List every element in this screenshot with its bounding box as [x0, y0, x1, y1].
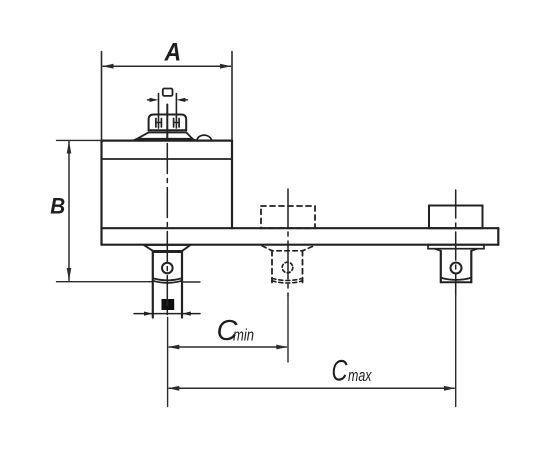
- middle phantom groove arcs (dashed): [272, 278, 303, 283]
- knob base trapezoid: [137, 132, 193, 138]
- right flange slope right: [471, 249, 477, 251]
- C dimensions left extension line: [167, 318, 169, 407]
- right drive side right: [470, 251, 472, 282]
- stub extension line left: [158, 94, 160, 129]
- right drive pin hole circle: [451, 263, 462, 274]
- right drive side left: [440, 251, 442, 282]
- plate top line: [102, 227, 499, 229]
- left drive black square opening: [162, 299, 175, 310]
- middle phantom square head (dashed): [261, 206, 315, 228]
- svg-text:A: A: [164, 38, 181, 66]
- middle phantom pin hole circle (dashed): [282, 262, 293, 273]
- left drive groove lower arc: [153, 281, 182, 283]
- left unit center line: [166, 144, 168, 317]
- svg-text:C: C: [332, 355, 348, 388]
- left drive pin hole circle: [162, 263, 173, 274]
- dimension C max line with arrows: [168, 386, 455, 391]
- right drive flange bar: [428, 245, 484, 249]
- cylinder right edge: [231, 141, 233, 229]
- left drive side right: [181, 251, 183, 318]
- right flange slope left: [435, 249, 441, 251]
- left drive flange trapezoid: [144, 245, 191, 252]
- knob internal mark left: [156, 119, 162, 128]
- cylinder left edge: [100, 141, 102, 245]
- stem center line (solid): [166, 105, 168, 139]
- knob body: [149, 115, 187, 131]
- cylinder top face line: [102, 140, 233, 142]
- label A: [164, 38, 181, 66]
- stub extension line right: [175, 94, 177, 129]
- knob internal mark right: [174, 119, 180, 128]
- lever blob right of knob base: [193, 135, 212, 140]
- stub width arrow right: [177, 98, 188, 102]
- dimension C min line with arrows: [168, 345, 288, 350]
- top stub small square: [163, 89, 173, 96]
- left drive bottom edge with size arrows: [134, 312, 200, 316]
- groove reference line right stub: [182, 281, 200, 283]
- middle phantom center line: [287, 189, 289, 296]
- C min right extension line: [287, 296, 289, 362]
- middle phantom drive side right (dashed): [302, 251, 304, 283]
- knob base left slope: [133, 139, 138, 141]
- label C max: [332, 355, 373, 388]
- plate bottom line: [102, 244, 499, 246]
- dimension A extension line left: [101, 52, 103, 141]
- plate right edge: [497, 228, 499, 245]
- right drive groove arc: [441, 278, 472, 280]
- label B: [50, 193, 65, 218]
- C max right extension line: [455, 295, 457, 407]
- label C min: [217, 315, 255, 347]
- dimension B bottom extension line: [57, 281, 153, 283]
- left drive side left: [152, 251, 154, 318]
- dimension B line with arrows: [67, 141, 72, 281]
- dimension A extension line right: [231, 52, 233, 141]
- right square head block: [429, 206, 483, 229]
- right unit center line: [455, 190, 457, 295]
- svg-text:min: min: [233, 327, 254, 345]
- cylinder upper ring line: [102, 158, 233, 160]
- dimension B top extension line: [57, 139, 102, 141]
- right drive bottom edge: [441, 281, 472, 283]
- svg-text:B: B: [50, 193, 65, 218]
- middle phantom drive side left (dashed): [271, 251, 273, 283]
- left drive groove upper arc: [153, 278, 182, 280]
- middle phantom flange trapezoid (dashed): [262, 246, 314, 251]
- svg-text:max: max: [348, 367, 372, 385]
- stub width arrow left: [148, 98, 159, 102]
- dimension A line with arrows: [102, 64, 231, 69]
- knob lower band line: [149, 131, 187, 133]
